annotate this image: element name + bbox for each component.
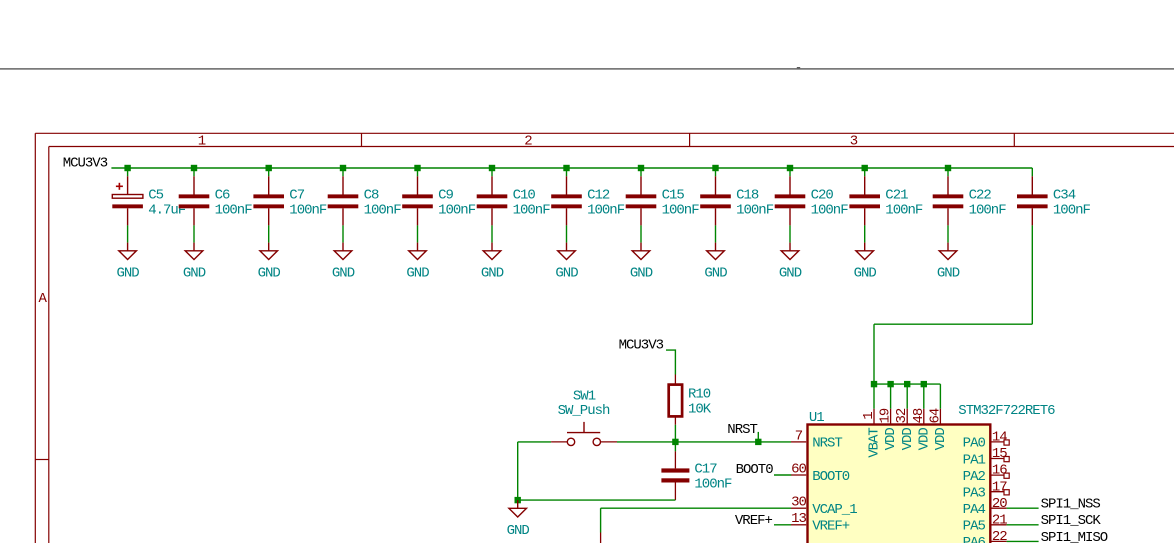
svg-text:C5: C5 <box>148 188 163 204</box>
svg-text:100nF: 100nF <box>364 202 402 218</box>
svg-text:MCU3V3: MCU3V3 <box>63 155 108 171</box>
svg-text:SPI1_SCK: SPI1_SCK <box>1041 513 1102 529</box>
svg-text:PA5: PA5 <box>963 519 986 535</box>
svg-text:100nF: 100nF <box>215 202 253 218</box>
svg-text:1: 1 <box>861 412 877 420</box>
svg-text:SW_Push: SW_Push <box>558 403 610 419</box>
svg-text:NRST: NRST <box>812 436 842 452</box>
svg-text:PA1: PA1 <box>963 452 986 468</box>
svg-text:100nF: 100nF <box>289 202 327 218</box>
svg-text:VCAP_1: VCAP_1 <box>812 502 857 518</box>
svg-text:GND: GND <box>183 265 206 281</box>
svg-text:VREF+: VREF+ <box>812 519 850 535</box>
svg-text:100nF: 100nF <box>587 202 625 218</box>
svg-text:GND: GND <box>332 265 355 281</box>
svg-text:21: 21 <box>992 512 1007 528</box>
svg-text:PA2: PA2 <box>963 469 986 485</box>
svg-text:C6: C6 <box>215 188 230 204</box>
svg-text:C15: C15 <box>662 188 685 204</box>
svg-text:C21: C21 <box>885 188 908 204</box>
svg-text:MCU3V3: MCU3V3 <box>619 337 664 353</box>
svg-text:32: 32 <box>894 408 910 423</box>
svg-text:7: 7 <box>795 428 803 444</box>
svg-text:C8: C8 <box>364 188 379 204</box>
svg-text:GND: GND <box>481 265 504 281</box>
svg-text:VBAT: VBAT <box>867 428 883 458</box>
svg-text:13: 13 <box>791 511 806 527</box>
svg-text:STM32F722RET6: STM32F722RET6 <box>958 403 1055 419</box>
svg-text:60: 60 <box>791 461 806 477</box>
svg-text:100nF: 100nF <box>885 202 923 218</box>
svg-text:PA6: PA6 <box>963 535 986 543</box>
svg-text:PA3: PA3 <box>963 486 986 502</box>
svg-text:30: 30 <box>791 495 806 511</box>
svg-text:BOOT0: BOOT0 <box>736 462 774 478</box>
svg-text:C22: C22 <box>969 188 992 204</box>
svg-text:22: 22 <box>992 529 1007 543</box>
svg-text:100nF: 100nF <box>736 202 774 218</box>
svg-text:100nF: 100nF <box>662 202 700 218</box>
svg-text:GND: GND <box>116 265 139 281</box>
svg-text:VDD: VDD <box>883 428 899 451</box>
svg-text:100nF: 100nF <box>811 202 849 218</box>
svg-text:SPI1_MISO: SPI1_MISO <box>1041 530 1108 543</box>
svg-text:C20: C20 <box>811 188 834 204</box>
svg-text:GND: GND <box>507 523 530 539</box>
svg-text:C7: C7 <box>289 188 304 204</box>
svg-text:SPI1_NSS: SPI1_NSS <box>1041 497 1101 513</box>
svg-text:C17: C17 <box>694 462 717 478</box>
svg-text:C10: C10 <box>513 188 536 204</box>
svg-text:GND: GND <box>854 265 877 281</box>
svg-text:GND: GND <box>555 265 578 281</box>
svg-text:2: 2 <box>524 133 532 149</box>
svg-text:U1: U1 <box>809 410 824 426</box>
svg-text:C9: C9 <box>438 188 453 204</box>
svg-text:GND: GND <box>258 265 281 281</box>
svg-text:GND: GND <box>704 265 727 281</box>
svg-text:GND: GND <box>406 265 429 281</box>
svg-text:100nF: 100nF <box>694 476 732 492</box>
svg-text:100nF: 100nF <box>438 202 476 218</box>
svg-text:C12: C12 <box>587 188 610 204</box>
svg-text:C34: C34 <box>1053 188 1076 204</box>
svg-text:VDD: VDD <box>916 428 932 451</box>
svg-text:VREF+: VREF+ <box>735 513 773 529</box>
svg-text:100nF: 100nF <box>1053 202 1091 218</box>
svg-text:GND: GND <box>937 265 960 281</box>
svg-text:BOOT0: BOOT0 <box>812 469 850 485</box>
svg-text:1: 1 <box>198 133 206 149</box>
svg-text:VDD: VDD <box>900 428 916 451</box>
svg-text:100nF: 100nF <box>513 202 551 218</box>
svg-text:64: 64 <box>927 408 943 423</box>
svg-text:19: 19 <box>878 408 894 423</box>
svg-text:PA0: PA0 <box>963 436 986 452</box>
svg-text:3: 3 <box>850 133 858 149</box>
svg-text:VDD: VDD <box>933 428 949 451</box>
svg-text:NRST: NRST <box>727 422 757 438</box>
svg-text:GND: GND <box>630 265 653 281</box>
svg-text:PA4: PA4 <box>963 502 986 518</box>
svg-text:100nF: 100nF <box>969 202 1007 218</box>
svg-text:C18: C18 <box>736 188 759 204</box>
svg-text:10K: 10K <box>688 401 712 417</box>
svg-text:48: 48 <box>911 408 927 423</box>
svg-text:R10: R10 <box>688 387 711 403</box>
svg-text:20: 20 <box>992 496 1007 512</box>
svg-text:GND: GND <box>779 265 802 281</box>
